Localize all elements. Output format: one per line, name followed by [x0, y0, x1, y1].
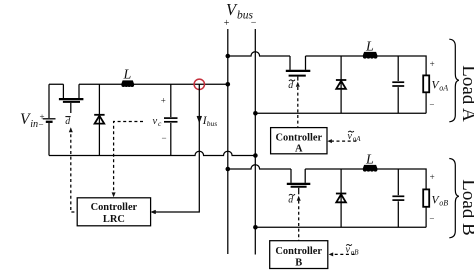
brace load A: [449, 39, 459, 122]
svg-text:+: +: [430, 59, 435, 69]
svg-text:oA: oA: [439, 83, 448, 92]
arrow Ibus down: [197, 116, 202, 122]
wire loadA bottom rail: [255, 112, 426, 114]
wire left vertical (Vin branch): [48, 84, 50, 155]
junction dot bus right / converter return: [253, 153, 258, 158]
svg-text:L: L: [123, 68, 132, 83]
capacitor C1 (vc) wires: [170, 84, 172, 155]
svg-text:Load B: Load B: [458, 179, 474, 235]
svg-text:−: −: [162, 133, 167, 143]
svg-text:bus: bus: [207, 119, 218, 128]
wire loadA feed with hop: [228, 52, 290, 56]
capacitor C1 plates: [164, 118, 178, 122]
diode D2 symbol: [336, 80, 346, 89]
diode D1 vertical wire: [98, 84, 100, 155]
inductor L3: [363, 165, 378, 172]
arrow dbar up: [69, 127, 73, 132]
svg-text:in: in: [30, 119, 38, 130]
wire loadB resistor bottom: [425, 207, 427, 228]
diode D3 symbol: [336, 194, 346, 203]
resistor RB: [423, 189, 429, 206]
capacitor C2 plates: [392, 82, 404, 86]
svg-text:−: −: [251, 18, 257, 29]
svg-text:v: v: [153, 116, 158, 127]
brace load B: [449, 159, 459, 238]
svg-text:v: v: [348, 131, 353, 142]
svg-text:Load A: Load A: [458, 65, 474, 122]
transistor M2 (load A MOSFET): [286, 56, 311, 81]
dashed gate line dbar to LRC: [71, 129, 77, 212]
svg-text:+: +: [224, 18, 230, 29]
bus right line: [254, 29, 256, 255]
svg-text:−: −: [39, 119, 44, 129]
dashed gate line dtilde B: [298, 201, 300, 241]
dashed gate line dtilde A: [297, 87, 299, 128]
svg-text:B: B: [295, 257, 302, 268]
dashed voB sense into controller B: [333, 253, 355, 255]
diode D3 vertical wire: [340, 169, 342, 227]
arrow vc down into LRC: [112, 192, 116, 197]
svg-text:oB: oB: [351, 249, 360, 257]
inductor L1: [121, 80, 134, 87]
svg-text:L: L: [365, 39, 374, 54]
wire loadB feed with hop: [228, 165, 291, 169]
svg-text:d: d: [288, 195, 293, 206]
controller B box: [270, 241, 328, 269]
svg-text:Controller: Controller: [91, 202, 138, 213]
svg-text:−: −: [429, 213, 434, 223]
arrow voA left: [327, 139, 332, 143]
junction dot bus right / loadA return: [253, 111, 258, 116]
arrow dtildeA up: [296, 82, 300, 87]
svg-text:+: +: [430, 172, 435, 182]
junction dot bus left / converter out: [226, 82, 231, 87]
arrow into LRC right edge: [151, 210, 155, 214]
controller A box: [271, 128, 327, 154]
capacitor C3 plates: [392, 196, 404, 200]
svg-text:Controller: Controller: [276, 133, 323, 144]
controller LRC box: [77, 198, 150, 226]
svg-text:c: c: [158, 119, 162, 128]
wire loadA top rail after mosfet: [306, 56, 427, 75]
arrow dtildeB up: [297, 196, 301, 201]
dashed vc sense line: [114, 122, 143, 193]
capacitor C3 wires: [397, 169, 399, 227]
transistor M3 (load B MOSFET): [287, 169, 311, 194]
svg-text:oA: oA: [353, 135, 362, 143]
svg-text:Controller: Controller: [275, 246, 322, 257]
svg-text:L: L: [365, 153, 374, 168]
svg-text:−: −: [429, 99, 434, 109]
dashed voA sense into controller A: [332, 140, 357, 142]
wire bottom rail left converter with hops: [49, 151, 255, 155]
svg-text:+: +: [161, 96, 166, 106]
svg-text:d: d: [288, 80, 293, 91]
svg-text:d: d: [65, 116, 70, 127]
diode D2 vertical wire: [340, 56, 342, 113]
inductor L2: [363, 52, 378, 59]
battery Vin plates: [43, 118, 56, 120]
wire loadB top rail after mosfet: [305, 169, 426, 189]
junction dot bus left / loadA feed: [226, 54, 231, 59]
resistor RA: [423, 75, 429, 92]
wire top rail left converter: [49, 83, 228, 85]
arrow voB left: [329, 252, 334, 256]
capacitor C2 wires: [397, 56, 399, 113]
svg-text:oB: oB: [439, 198, 448, 207]
diode D1 symbol: [94, 115, 104, 124]
svg-text:v: v: [346, 245, 351, 256]
svg-text:LRC: LRC: [103, 214, 125, 225]
junction dot bus left / loadB feed: [226, 167, 231, 172]
wire Ibus measurement vertical: [155, 84, 199, 212]
node red circle (bus tap): [194, 79, 204, 89]
svg-text:A: A: [295, 144, 303, 155]
bus left line: [227, 29, 229, 254]
transistor M1 (left converter MOSFET): [59, 84, 84, 113]
junction dot bus right / loadB return: [253, 225, 258, 230]
wire loadB bottom rail: [255, 226, 426, 228]
wire loadA resistor bottom: [425, 92, 427, 113]
